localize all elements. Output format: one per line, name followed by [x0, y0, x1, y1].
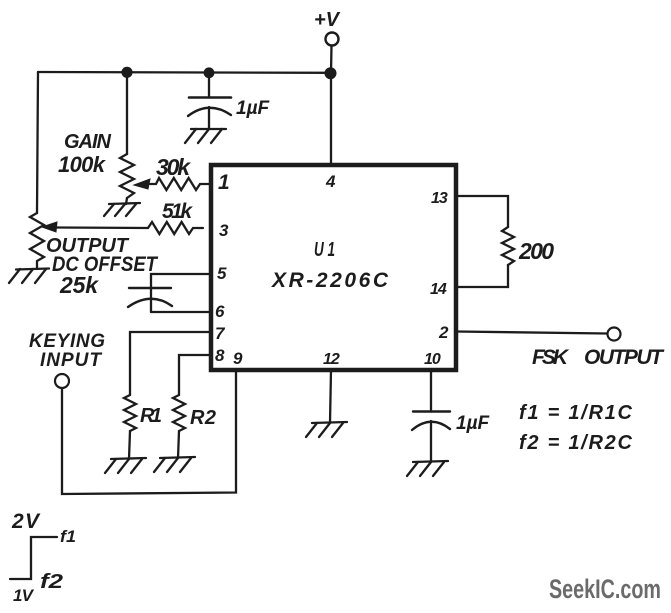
- wire R2 to ground: [178, 431, 179, 458]
- svg-text:9: 9: [233, 349, 243, 368]
- svg-text:f2 = 1/R2C: f2 = 1/R2C: [519, 432, 633, 454]
- svg-text:f2: f2: [40, 571, 63, 593]
- svg-text:2: 2: [438, 323, 449, 342]
- junction dot bypass cap branch: [204, 67, 215, 78]
- svg-text:R2: R2: [190, 407, 216, 429]
- svg-text:8: 8: [215, 346, 225, 365]
- wire pin 4: [330, 73, 332, 165]
- svg-text:1µF: 1µF: [236, 98, 271, 119]
- pin 12 wire: [330, 370, 331, 423]
- resistor 30k with wire to pin 1: [150, 178, 210, 190]
- resistor 200 body: [502, 227, 514, 265]
- keying waveform: [10, 537, 57, 579]
- capacitor C2 straight plate: [129, 287, 171, 289]
- IC U1 XR-2206C body: [211, 165, 456, 370]
- svg-text:7: 7: [215, 324, 226, 343]
- svg-text:GAIN: GAIN: [64, 131, 112, 153]
- svg-text:XR-2206C: XR-2206C: [271, 269, 389, 292]
- ground C3: [407, 461, 448, 476]
- svg-text:100k: 100k: [58, 152, 107, 177]
- svg-text:R1: R1: [140, 405, 162, 427]
- wire C1 to ground: [208, 107, 210, 129]
- left rail wire: [37, 72, 38, 213]
- wire GAIN pot to ground: [126, 198, 127, 204]
- wire +V terminal to rail: [330, 46, 333, 74]
- svg-text:25k: 25k: [59, 272, 99, 298]
- keying input wire to pin 9: [62, 370, 236, 494]
- svg-text:5: 5: [217, 264, 227, 283]
- wire junction to bypass cap: [208, 73, 210, 98]
- svg-text:INPUT: INPUT: [40, 350, 102, 371]
- svg-text:+V: +V: [314, 9, 341, 31]
- pin 10 wire: [430, 370, 432, 412]
- ground pin 12: [306, 422, 347, 437]
- keying input terminal: [55, 374, 69, 388]
- pin 13 wire: [456, 196, 508, 227]
- resistor 51k with wire pin 3 to pot arrow: [57, 222, 203, 234]
- potentiometer OUTPUT DC OFFSET 25k body: [30, 213, 44, 269]
- wiper arrow GAIN pot: [134, 179, 150, 189]
- pin 8 wire: [179, 355, 211, 395]
- svg-text:SeekIC.com: SeekIC.com: [549, 574, 661, 604]
- svg-text:4: 4: [325, 172, 336, 191]
- top supply rail wire: [38, 71, 331, 74]
- resistor R2 body: [173, 395, 185, 431]
- svg-text:200: 200: [518, 238, 554, 264]
- pin 2 wire: [456, 332, 607, 334]
- svg-text:1µF: 1µF: [456, 413, 491, 434]
- pin 6 wire: [151, 311, 211, 313]
- capacitor C1 1uF top plate: [189, 96, 231, 99]
- svg-text:f1: f1: [60, 527, 76, 546]
- wiper arrow OUTPUT DC OFFSET pot: [42, 222, 57, 232]
- svg-text:14: 14: [430, 281, 447, 298]
- capacitor C3 1uF curved plate: [412, 422, 450, 430]
- svg-text:12: 12: [323, 351, 340, 368]
- svg-text:2V: 2V: [11, 510, 41, 533]
- wire junction to gain pot: [126, 73, 128, 155]
- junction dot gain branch: [121, 67, 132, 78]
- potentiometer GAIN 100k body: [120, 154, 134, 198]
- capacitor C1 1uF curved plate: [188, 108, 231, 116]
- svg-text:51k: 51k: [162, 200, 193, 223]
- svg-text:6: 6: [215, 302, 225, 321]
- svg-text:13: 13: [431, 190, 448, 207]
- wire R1 to ground: [129, 431, 130, 459]
- svg-text:FSK: FSK: [532, 346, 570, 369]
- svg-text:1: 1: [218, 171, 230, 194]
- capacitor C2 curved plate: [128, 299, 172, 307]
- svg-text:10: 10: [424, 351, 441, 368]
- svg-text:OUTPUT: OUTPUT: [584, 346, 665, 369]
- pin 7 wire: [130, 332, 211, 395]
- svg-text:U 1: U 1: [314, 239, 335, 261]
- junction dot +V: [325, 67, 337, 79]
- svg-text:f1 = 1/R1C: f1 = 1/R1C: [519, 402, 633, 424]
- svg-text:3: 3: [219, 221, 229, 240]
- pin 5 wire: [151, 274, 211, 312]
- ground GAIN pot: [104, 203, 140, 216]
- FSK output terminal: [608, 328, 621, 341]
- resistor R1 body: [124, 395, 136, 431]
- ground 25k pot: [9, 269, 49, 284]
- wire C3 to ground: [430, 421, 432, 462]
- pin 14 wire: [456, 265, 508, 287]
- svg-text:30k: 30k: [156, 154, 191, 180]
- +V terminal: [326, 33, 339, 46]
- ground R1: [105, 458, 146, 473]
- svg-text:KEYING: KEYING: [29, 331, 105, 352]
- ground R2: [154, 457, 195, 472]
- capacitor C3 1uF top plate: [413, 410, 450, 412]
- svg-text:1V: 1V: [13, 586, 35, 605]
- ground bypass cap: [185, 129, 226, 143]
